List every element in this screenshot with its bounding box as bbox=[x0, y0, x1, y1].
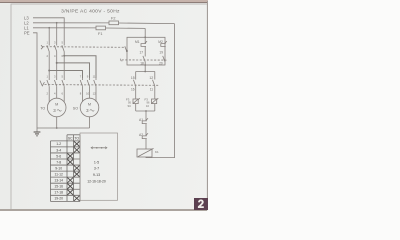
switch Q1 pin numbers bbox=[47, 41, 64, 58]
svg-text:SC: SC bbox=[128, 104, 132, 108]
svg-text:1: 1 bbox=[47, 75, 49, 79]
node L1 tap bbox=[48, 27, 50, 29]
svg-text:19: 19 bbox=[159, 51, 163, 55]
svg-text:1: 1 bbox=[47, 41, 49, 45]
wire split to selector contacts bbox=[144, 65, 146, 72]
svg-text:11: 11 bbox=[150, 88, 154, 92]
motor M1 leads bbox=[48, 92, 50, 102]
legend text bbox=[87, 160, 106, 183]
wire tap phase2 bbox=[57, 63, 90, 78]
table grid bbox=[67, 134, 80, 136]
svg-text:16: 16 bbox=[131, 88, 135, 92]
node tap phase2 bbox=[56, 62, 58, 64]
svg-text:F1: F1 bbox=[98, 32, 102, 36]
svg-text:9-10: 9-10 bbox=[55, 166, 62, 170]
svg-text:9-13: 9-13 bbox=[93, 173, 100, 177]
svg-text:95: 95 bbox=[128, 100, 131, 104]
overload contact F3 bbox=[133, 99, 138, 104]
svg-text:20: 20 bbox=[159, 62, 163, 66]
contact group A pole1 bbox=[48, 78, 50, 80]
svg-text:A2: A2 bbox=[139, 133, 143, 137]
motor PE bonding wires bbox=[56, 117, 58, 128]
switch Q1 pole 3 bbox=[63, 44, 65, 46]
svg-text:96: 96 bbox=[147, 100, 150, 104]
switch Q1 pole 2 bbox=[56, 44, 58, 46]
figure frame bbox=[11, 4, 207, 210]
svg-text:19-20: 19-20 bbox=[54, 197, 63, 201]
svg-text:13-14: 13-14 bbox=[54, 179, 63, 183]
node tap phase1 bbox=[48, 70, 50, 72]
svg-text:12: 12 bbox=[149, 76, 153, 80]
fuse F2 bbox=[109, 21, 119, 25]
svg-text:SO: SO bbox=[73, 107, 78, 111]
svg-text:3/N/PE AC 400V - 50Hz: 3/N/PE AC 400V - 50Hz bbox=[61, 9, 120, 15]
ground bbox=[34, 132, 41, 136]
legend box bbox=[80, 133, 118, 200]
contact pin numbers bbox=[47, 75, 97, 96]
svg-text:2: 2 bbox=[47, 92, 49, 96]
svg-text:K1: K1 bbox=[155, 150, 159, 154]
wire coil return bbox=[146, 24, 175, 158]
svg-text:11: 11 bbox=[93, 75, 96, 79]
table header bbox=[54, 137, 79, 201]
svg-text:17: 17 bbox=[140, 51, 144, 55]
svg-text:1-2: 1-2 bbox=[56, 142, 61, 146]
svg-text:M1: M1 bbox=[135, 40, 140, 44]
svg-text:5: 5 bbox=[62, 41, 64, 45]
node loop bottom bbox=[144, 64, 146, 66]
selector contact 11-12 bbox=[154, 72, 156, 80]
wire phase drops bbox=[48, 28, 50, 44]
node PE join bbox=[56, 127, 58, 129]
svg-text:12: 12 bbox=[93, 92, 96, 96]
svg-text:7: 7 bbox=[80, 75, 82, 79]
svg-text:12-16-18-20: 12-16-18-20 bbox=[87, 179, 106, 183]
svg-text:3-4: 3-4 bbox=[56, 148, 61, 152]
svg-text:10: 10 bbox=[86, 92, 89, 96]
contact M1 branch bbox=[143, 56, 145, 62]
svg-text:15: 15 bbox=[131, 76, 135, 80]
svg-text:2: 2 bbox=[47, 54, 49, 58]
jumper symbol bbox=[91, 147, 107, 149]
svg-text:5-6: 5-6 bbox=[56, 154, 61, 158]
contact group A pole3 bbox=[63, 78, 65, 80]
contact group B pole1 bbox=[82, 78, 84, 80]
svg-text:TO: TO bbox=[74, 137, 79, 141]
wire tap phase1 bbox=[49, 71, 82, 79]
svg-text:4: 4 bbox=[54, 54, 56, 58]
svg-text:3-7: 3-7 bbox=[94, 167, 99, 171]
motor M2 bbox=[80, 98, 99, 117]
contact on left edge bbox=[125, 46, 127, 52]
svg-text:M: M bbox=[88, 103, 91, 107]
node feed tee bbox=[144, 36, 146, 38]
contact group A pole2 bbox=[56, 78, 58, 80]
cam actuator zigzag bbox=[40, 81, 45, 86]
wire pole outputs down bbox=[48, 53, 50, 78]
node join bbox=[145, 110, 147, 112]
mechanical link dashed lower bbox=[45, 84, 159, 87]
wire tap phase3 bbox=[64, 56, 96, 78]
svg-text:4: 4 bbox=[54, 92, 56, 96]
svg-text:A1: A1 bbox=[139, 118, 143, 122]
linkage dashed to branch contacts bbox=[122, 59, 167, 61]
table X marks bbox=[67, 141, 79, 201]
contact group B pole3 bbox=[95, 78, 97, 80]
svg-text:6: 6 bbox=[62, 92, 64, 96]
manual actuator hook bbox=[41, 45, 43, 49]
svg-text:F2: F2 bbox=[111, 16, 115, 20]
contact M2 branch bbox=[163, 56, 165, 62]
fuse F1 bbox=[96, 26, 106, 30]
wire loop rectangle bbox=[127, 37, 165, 65]
svg-text:3: 3 bbox=[86, 108, 89, 113]
svg-text:TO: TO bbox=[40, 107, 45, 111]
coil K1 bbox=[137, 149, 152, 157]
svg-text:SC: SC bbox=[68, 137, 73, 141]
mechanical link dashed upper bbox=[43, 46, 126, 49]
svg-text:18: 18 bbox=[140, 62, 144, 66]
svg-text:M: M bbox=[55, 103, 58, 107]
svg-text:11-12: 11-12 bbox=[54, 173, 63, 177]
motor M1 bbox=[47, 98, 66, 117]
node split tee bbox=[144, 71, 146, 73]
svg-text:9: 9 bbox=[87, 75, 89, 79]
wire join to coil bbox=[136, 110, 155, 112]
svg-text:3: 3 bbox=[53, 108, 56, 113]
svg-text:PE: PE bbox=[24, 31, 30, 36]
svg-text:8: 8 bbox=[80, 92, 82, 96]
svg-text:5: 5 bbox=[62, 75, 64, 79]
svg-text:15-16: 15-16 bbox=[54, 185, 63, 189]
switch Q1 pole 1 bbox=[48, 44, 50, 46]
node L2 tap bbox=[56, 22, 58, 24]
motor M2 leads bbox=[82, 92, 84, 102]
svg-text:1-5: 1-5 bbox=[94, 160, 99, 164]
selector contact 15-16 bbox=[135, 72, 137, 80]
svg-text:3: 3 bbox=[54, 75, 56, 79]
wire feed to connector loop bbox=[144, 28, 146, 37]
contact group B pole2 bbox=[89, 78, 91, 80]
svg-text:7-8: 7-8 bbox=[56, 160, 61, 164]
svg-text:3: 3 bbox=[54, 41, 56, 45]
node tap to K-group phase3 bbox=[63, 55, 65, 57]
svg-text:17-18: 17-18 bbox=[54, 191, 63, 195]
overload contact F4 bbox=[152, 99, 157, 104]
terminal table bbox=[51, 135, 81, 202]
